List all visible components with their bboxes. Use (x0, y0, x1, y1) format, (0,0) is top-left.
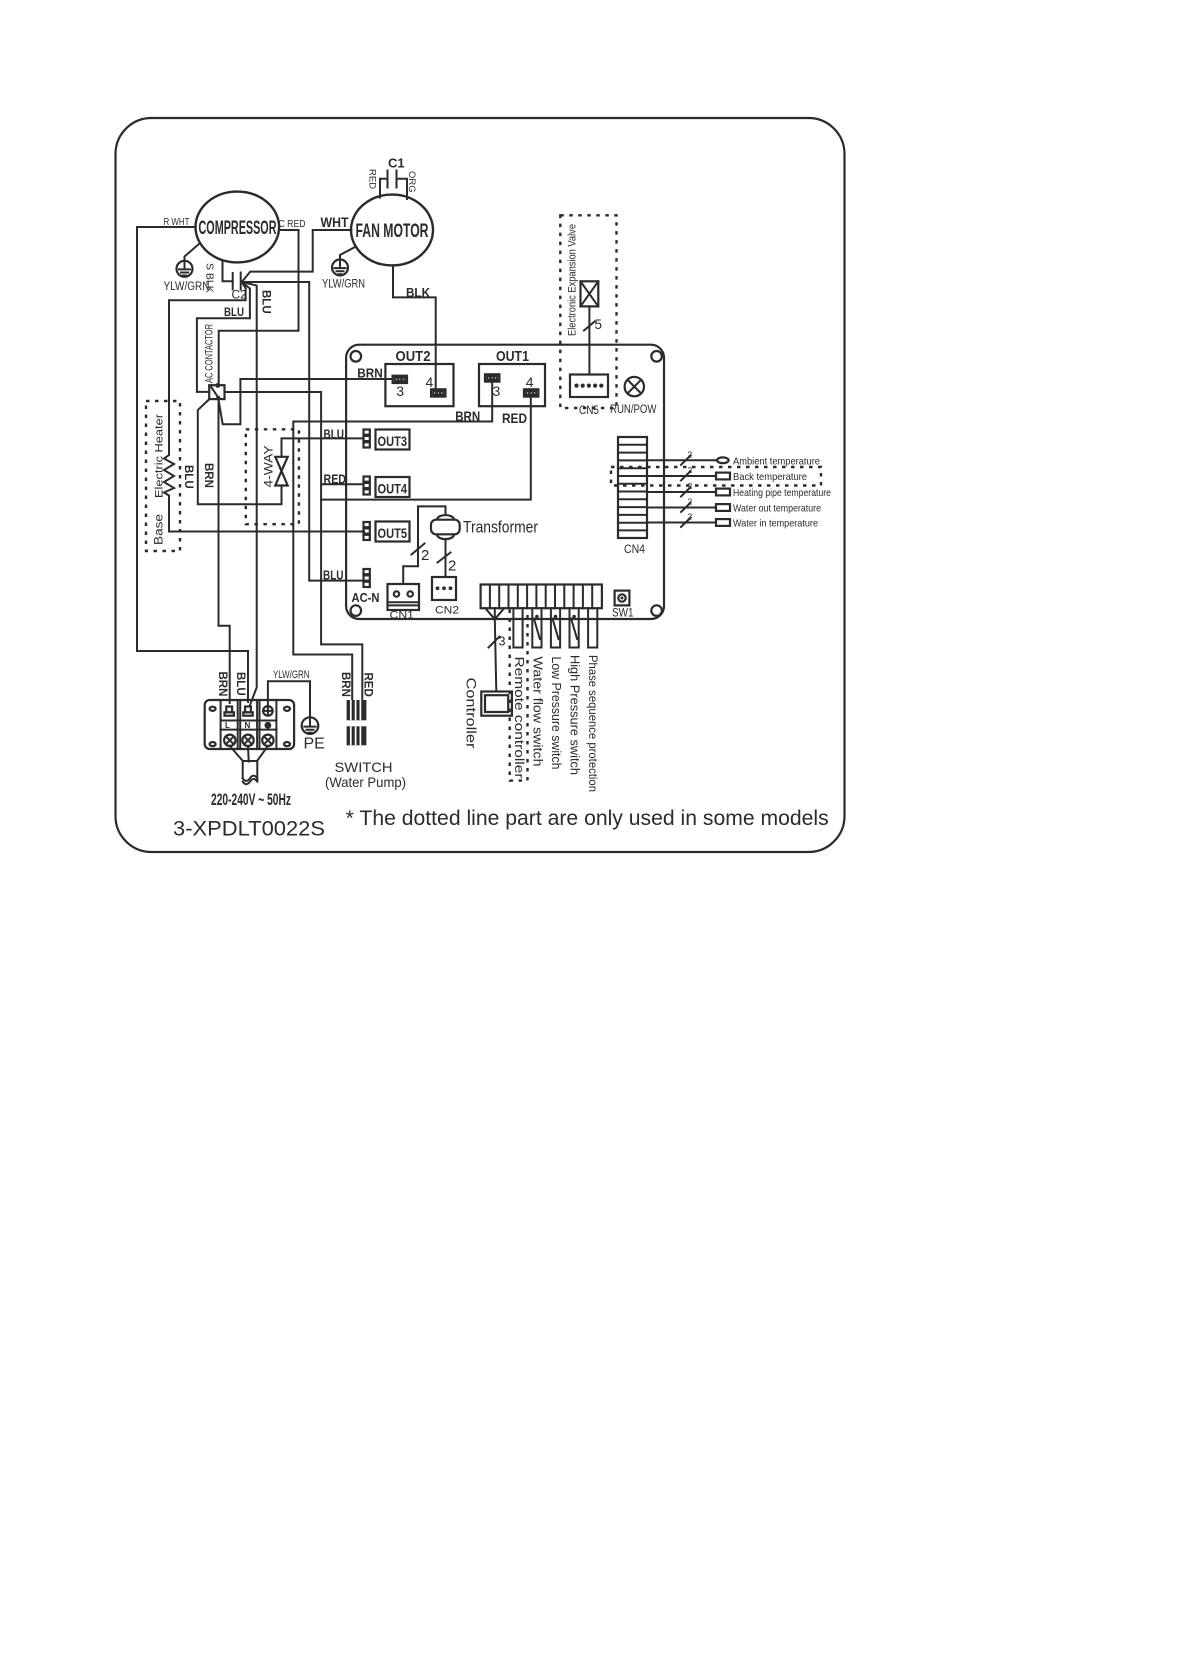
svg-text:5: 5 (595, 317, 603, 332)
svg-text:YLW/GRN: YLW/GRN (164, 281, 210, 293)
svg-text:Phase sequence protection: Phase sequence protection (586, 655, 600, 792)
svg-text:3: 3 (493, 383, 501, 399)
svg-text:CN5: CN5 (579, 405, 599, 417)
svg-text:(Water Pump): (Water Pump) (325, 774, 406, 790)
svg-text:BLU: BLU (234, 672, 246, 696)
svg-text:BLU: BLU (182, 465, 194, 489)
svg-text:2: 2 (688, 497, 693, 507)
svg-text:AC-N: AC-N (352, 591, 380, 605)
svg-text:OUT4: OUT4 (378, 482, 408, 497)
svg-text:SWITCH: SWITCH (335, 759, 393, 775)
svg-text:AC CONTACTOR: AC CONTACTOR (204, 324, 216, 383)
svg-text:3: 3 (499, 635, 506, 649)
svg-text:BRN: BRN (216, 672, 228, 697)
svg-text:2: 2 (688, 512, 693, 522)
svg-text:* The dotted line part are onl: * The dotted line part are only used in … (346, 807, 829, 830)
svg-text:CN2: CN2 (435, 605, 459, 617)
svg-text:COMPRESSOR: COMPRESSOR (199, 218, 277, 239)
svg-text:BLU: BLU (224, 305, 244, 319)
svg-text:2: 2 (421, 547, 429, 564)
svg-text:BLU: BLU (260, 290, 272, 314)
svg-text:High Pressure switch: High Pressure switch (568, 655, 582, 775)
svg-text:Controller: Controller (464, 678, 479, 750)
svg-text:L: L (225, 721, 230, 730)
svg-text:BLU: BLU (323, 569, 344, 583)
svg-text:BRN: BRN (339, 672, 351, 697)
svg-text:CN1: CN1 (390, 610, 415, 622)
svg-text:WHT: WHT (321, 215, 350, 230)
svg-text:YLW/GRN: YLW/GRN (273, 669, 310, 681)
svg-text:OUT2: OUT2 (396, 348, 431, 365)
svg-text:BRN: BRN (455, 408, 480, 424)
svg-text:YLW/GRN: YLW/GRN (322, 279, 365, 291)
svg-text:3: 3 (396, 383, 404, 399)
svg-text:N: N (245, 721, 251, 730)
svg-text:Base: Base (152, 514, 166, 545)
svg-text:RED: RED (324, 473, 347, 487)
svg-text:PE: PE (304, 736, 325, 753)
svg-text:Remote controller: Remote controller (512, 657, 527, 780)
svg-text:Ambient temperature: Ambient temperature (733, 455, 820, 467)
svg-text:2: 2 (688, 465, 693, 475)
svg-text:ORG: ORG (406, 171, 417, 193)
svg-text:OUT5: OUT5 (378, 526, 408, 541)
svg-text:4: 4 (526, 374, 534, 390)
svg-text:CN4: CN4 (624, 544, 646, 556)
svg-text:4: 4 (426, 374, 434, 390)
svg-text:2: 2 (688, 450, 693, 460)
svg-text:Low Pressure switch: Low Pressure switch (549, 657, 563, 770)
svg-text:Electric Heater: Electric Heater (154, 414, 166, 498)
svg-text:RED: RED (367, 169, 378, 189)
svg-text:Water flow switch: Water flow switch (530, 657, 544, 767)
svg-text:220-240V ~ 50Hz: 220-240V ~ 50Hz (211, 790, 291, 809)
svg-text:RED: RED (362, 673, 374, 697)
svg-text:RED: RED (502, 410, 527, 426)
svg-text:FAN MOTOR: FAN MOTOR (356, 221, 429, 242)
svg-text:Transformer: Transformer (463, 518, 538, 537)
svg-text:Heating pipe temperature: Heating pipe temperature (733, 487, 831, 499)
svg-text:BRN: BRN (202, 463, 214, 488)
svg-text:Back temperature: Back temperature (733, 471, 807, 483)
svg-text:Water in temperature: Water in temperature (733, 518, 818, 530)
svg-text:SW1: SW1 (612, 608, 634, 620)
svg-text:2: 2 (448, 558, 456, 575)
svg-text:3-XPDLT0022S: 3-XPDLT0022S (173, 818, 325, 841)
svg-text:BLU: BLU (324, 428, 345, 442)
svg-text:BRN: BRN (357, 366, 383, 381)
svg-text:OUT3: OUT3 (378, 434, 408, 449)
svg-text:4-WAY: 4-WAY (262, 446, 276, 488)
svg-text:OUT1: OUT1 (496, 348, 529, 365)
svg-text:C1: C1 (388, 156, 405, 171)
svg-text:RUN/POW: RUN/POW (610, 404, 657, 416)
svg-text:C RED: C RED (279, 218, 306, 230)
svg-text:S BLK: S BLK (204, 263, 216, 293)
svg-text:Water out temperature: Water out temperature (733, 503, 821, 515)
svg-text:Electronic Expansion Valve: Electronic Expansion Valve (567, 224, 579, 336)
